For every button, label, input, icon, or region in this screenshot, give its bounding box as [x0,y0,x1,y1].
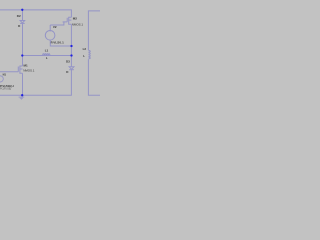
diode D3 [69,67,74,70]
node D: junction mid rail / D3 [70,54,72,56]
svg-text:M2: M2 [73,17,77,21]
wire: top rail into M2 drain [0,10,71,17]
svg-text:L1: L1 [45,49,49,53]
svg-text:D2: D2 [17,14,21,18]
wire: mid rail through L1 [23,55,72,57]
inductor L2 [89,50,91,58]
svg-text:NMOS.1: NMOS.1 [23,69,35,73]
node C: junction V2 wire / M2 source [70,45,72,47]
wire: D3 cathode down, bottom rail to left edge [0,70,71,96]
svg-text:L: L [83,54,85,58]
wire: M1 source down to bottom rail [22,73,24,95]
svg-text:P(1/N.SE): P(1/N.SE) [0,88,11,91]
svg-text:NMOS.1: NMOS.1 [72,23,84,27]
svg-text:L2: L2 [83,47,87,51]
wire: right loop bottom [88,59,100,95]
node B: junction mid rail / D2 / M1 [21,54,23,56]
svg-text:L: L [46,56,48,60]
svg-text:N1: N1 [3,72,7,76]
wire: right loop top [88,11,100,50]
node E: junction bottom rail / ground [21,94,23,96]
svg-text:D3: D3 [66,60,70,64]
node A: junction top rail / D2 [21,9,23,11]
svg-text:M1: M1 [24,64,28,68]
wire: V2 plus to M2 gate [50,22,64,25]
wire: D2 cathode down to mid node and M1 drain [22,23,24,66]
mosfet M2 [63,17,72,24]
background [0,0,100,100]
wire: D2 anode from top rail [22,10,24,20]
wire: M1 gate lead [0,71,18,73]
wire: V2 minus to node [50,40,71,46]
ground [19,95,25,99]
svg-text:V2: V2 [53,25,57,29]
diode D2 [20,21,25,24]
svg-text:P.VLS0.1: P.VLS0.1 [51,40,64,44]
pulse source N1 (clipped circle at left edge) [0,76,3,82]
voltage source V2 (circle) [45,25,55,40]
wire: M2 source down to D3 anode [70,24,72,66]
inductor L1 [43,54,50,56]
mosfet M1 [18,66,22,73]
